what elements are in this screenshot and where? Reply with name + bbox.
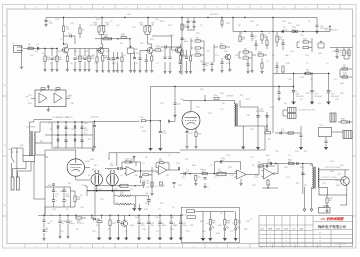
- svg-text:4: 4: [286, 233, 287, 235]
- svg-text:2: 2: [270, 245, 271, 247]
- svg-text:4: 4: [286, 237, 287, 239]
- svg-text:工艺: 工艺: [292, 227, 296, 230]
- svg-text:1u: 1u: [55, 196, 57, 198]
- svg-text:100u: 100u: [76, 58, 81, 60]
- svg-text:R53: R53: [214, 95, 217, 97]
- svg-text:A1: A1: [40, 90, 42, 93]
- svg-text:5Z3P: 5Z3P: [85, 161, 90, 163]
- svg-text:+36V: +36V: [126, 14, 132, 16]
- svg-text:56K: 56K: [90, 58, 94, 60]
- svg-text:梅岭电子有限公司: 梅岭电子有限公司: [318, 224, 346, 229]
- svg-text:C48 100n: C48 100n: [91, 117, 99, 119]
- svg-text:4: 4: [286, 241, 287, 243]
- svg-text:470u/50V: 470u/50V: [296, 96, 305, 98]
- svg-text:CHOKE: CHOKE: [226, 96, 233, 98]
- svg-text:470u/50V: 470u/50V: [314, 96, 323, 98]
- svg-text:•••• 机种线路图: •••• 机种线路图: [321, 217, 344, 221]
- svg-text:(TO HEATER +6.3V DC): (TO HEATER +6.3V DC): [52, 116, 73, 119]
- svg-text:220u: 220u: [260, 111, 265, 113]
- svg-text:100n: 100n: [49, 23, 53, 25]
- svg-text:6N9P: 6N9P: [186, 113, 191, 115]
- svg-text:R51: R51: [198, 134, 201, 136]
- svg-text:(TO AMP PCB CN1): (TO AMP PCB CN1): [298, 109, 315, 112]
- svg-text:22K: 22K: [121, 36, 125, 38]
- svg-text:56K: 56K: [104, 37, 108, 39]
- svg-text:100u: 100u: [162, 133, 166, 135]
- svg-text:22K: 22K: [156, 48, 160, 50]
- svg-text:47K: 47K: [226, 223, 230, 225]
- svg-text:(OUTPUT 8 OHM): (OUTPUT 8 OHM): [325, 167, 341, 169]
- svg-text:100u: 100u: [184, 41, 189, 43]
- svg-text:10u: 10u: [205, 65, 208, 67]
- svg-text:22K: 22K: [306, 72, 310, 74]
- svg-text:2002/11/14: 2002/11/14: [335, 243, 347, 245]
- svg-text:C43: C43: [189, 133, 192, 135]
- svg-text:22K: 22K: [258, 164, 262, 166]
- svg-text:R40 2K2: R40 2K2: [210, 14, 219, 16]
- svg-text:1u: 1u: [253, 38, 255, 40]
- svg-text:C41: C41: [177, 104, 180, 106]
- svg-text:SW: SW: [9, 149, 12, 151]
- svg-text:T1 POWER: T1 POWER: [26, 127, 37, 129]
- svg-text:(OUTPUT 4 OHM): (OUTPUT 4 OHM): [321, 177, 337, 179]
- svg-text:22K: 22K: [46, 59, 50, 61]
- svg-text:220u: 220u: [283, 29, 288, 31]
- svg-text:A2: A2: [55, 90, 57, 93]
- svg-text:56K: 56K: [58, 59, 62, 61]
- svg-text:470u: 470u: [84, 130, 88, 132]
- svg-text:47K: 47K: [140, 25, 144, 27]
- svg-text:R58: R58: [265, 130, 268, 132]
- svg-text:4: 4: [286, 245, 287, 247]
- svg-text:100u: 100u: [70, 223, 75, 225]
- svg-text:C62: C62: [146, 183, 149, 185]
- svg-text:220u: 220u: [141, 225, 146, 227]
- svg-text:R45 10K: R45 10K: [142, 181, 150, 183]
- svg-text:RY1: RY1: [320, 125, 324, 127]
- svg-text:1u: 1u: [62, 223, 64, 225]
- svg-text:AC IN: AC IN: [182, 213, 187, 216]
- svg-text:C60: C60: [145, 193, 148, 195]
- svg-text:2: 2: [270, 241, 271, 243]
- svg-text:220u: 220u: [218, 171, 223, 173]
- svg-text:10K: 10K: [94, 25, 98, 27]
- svg-text:R50: R50: [140, 117, 143, 119]
- svg-text:22n: 22n: [281, 131, 284, 133]
- svg-text:22n: 22n: [150, 225, 153, 227]
- svg-text:1u: 1u: [37, 46, 39, 48]
- svg-text:2: 2: [270, 237, 271, 239]
- svg-text:220u: 220u: [66, 196, 71, 198]
- svg-text:LED: LED: [47, 223, 51, 225]
- svg-text:2: 2: [270, 233, 271, 235]
- svg-text:(TO MAIN B+): (TO MAIN B+): [325, 29, 338, 32]
- svg-text:56K: 56K: [77, 199, 81, 201]
- svg-text:100K: 100K: [341, 121, 346, 123]
- svg-text:10K: 10K: [196, 54, 200, 56]
- svg-text:470u/50V: 470u/50V: [331, 96, 340, 98]
- svg-text:22K: 22K: [106, 25, 110, 27]
- svg-text:100u: 100u: [182, 225, 187, 227]
- svg-text:100n: 100n: [162, 225, 167, 227]
